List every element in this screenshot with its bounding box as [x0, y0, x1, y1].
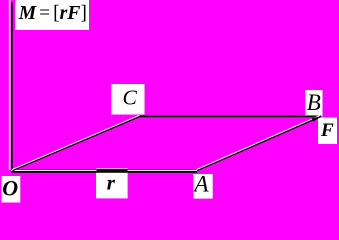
- label box A: [193, 174, 213, 199]
- svg-text:O: O: [2, 176, 18, 201]
- side O-A (vector r) black-white-black: [11, 168, 197, 170]
- label box F: [318, 118, 337, 145]
- vector M vertical line: [11, 3, 13, 172]
- vector M vertical line white edge: [9, 0, 11, 170]
- label box B: [305, 90, 323, 117]
- diagonal O-C white edge: [12, 115, 140, 169]
- diagonal O-C: [13, 116, 141, 170]
- svg-text:C: C: [123, 86, 138, 110]
- vector r solid segment across r label box: [97, 170, 128, 172]
- label box M = [rF]: [15, 0, 89, 30]
- side C-B top edge: [138, 115, 321, 117]
- svg-text:M = [rF]: M = [rF]: [18, 3, 87, 24]
- side A-B (vector F): [197, 117, 321, 171]
- svg-text:B: B: [307, 90, 321, 115]
- label box O: [1, 176, 20, 203]
- label box r: [96, 168, 128, 198]
- side A-B (vector F) white edge: [197, 116, 321, 170]
- svg-text:F: F: [320, 120, 334, 141]
- svg-text:r: r: [107, 171, 116, 195]
- label box C: [111, 84, 145, 115]
- svg-text:A: A: [192, 171, 209, 197]
- arrowhead of F at B: [312, 116, 321, 121]
